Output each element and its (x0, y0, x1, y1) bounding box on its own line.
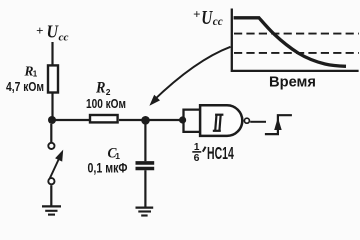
svg-text:cc: cc (213, 16, 223, 28)
svg-text:+: + (193, 6, 200, 21)
svg-text:100 кОм: 100 кОм (86, 96, 126, 111)
svg-text:Время: Время (269, 73, 316, 90)
svg-text:U: U (201, 7, 213, 29)
svg-text:6: 6 (194, 152, 200, 164)
svg-text:R: R (95, 80, 105, 97)
svg-text:4,7 кОм: 4,7 кОм (6, 79, 44, 94)
svg-text:1: 1 (115, 151, 120, 161)
svg-text:+: + (36, 23, 43, 38)
svg-text:U: U (47, 21, 59, 41)
svg-text:1: 1 (33, 70, 38, 79)
svg-text:cc: cc (59, 33, 69, 44)
svg-text:HC14: HC14 (207, 143, 234, 163)
svg-text:0,1 мкФ: 0,1 мкФ (88, 160, 128, 175)
